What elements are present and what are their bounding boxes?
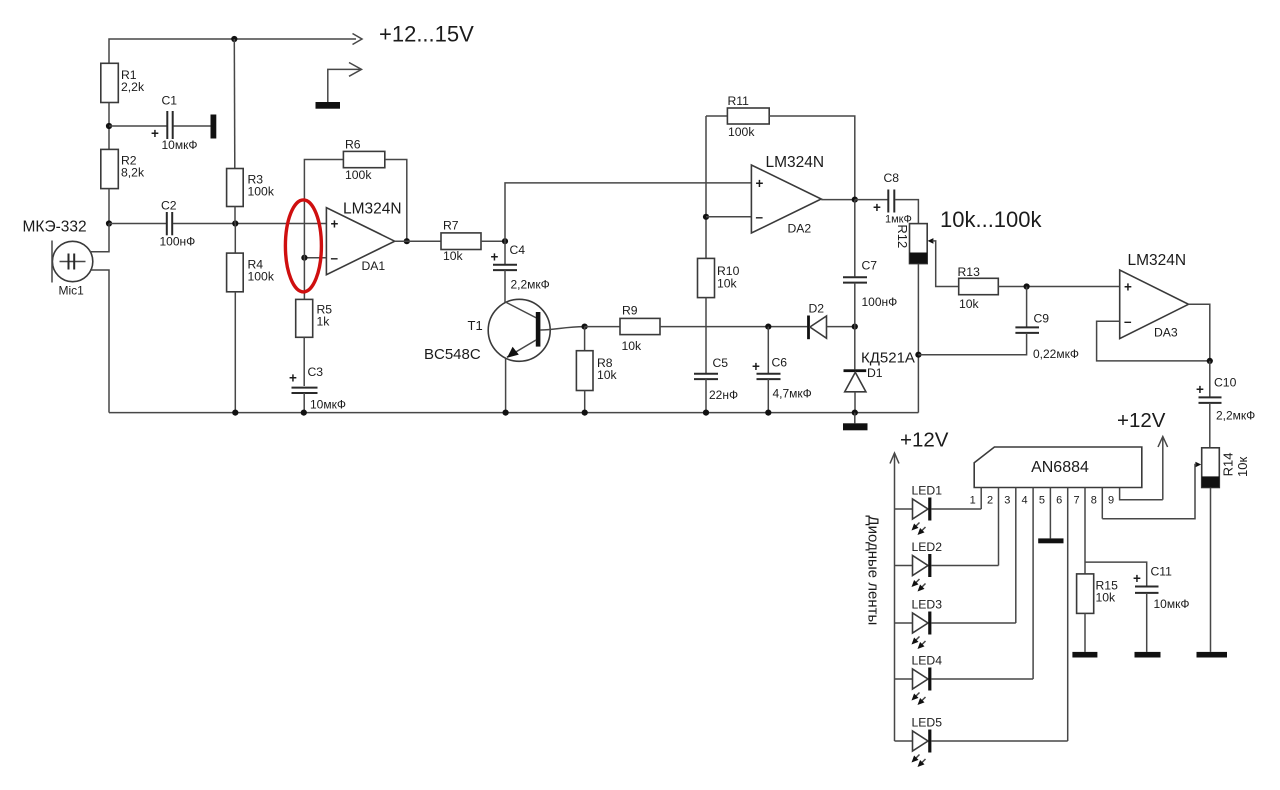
wire DA3 feedback [1097, 321, 1210, 361]
LED5 [895, 716, 1068, 768]
svg-text:100k: 100k [248, 185, 275, 199]
svg-text:+: + [1124, 280, 1132, 295]
wire R6 feedback left vertical [304, 160, 343, 300]
arrow +12V left LED rail [890, 453, 899, 741]
node R7-C4 [502, 238, 508, 244]
LED3 [895, 598, 1016, 650]
resistor R5 [296, 299, 333, 337]
node mic junction [106, 220, 112, 226]
svg-text:C7: C7 [862, 259, 878, 273]
svg-text:C6: C6 [772, 356, 788, 370]
svg-text:+: + [1133, 571, 1141, 586]
LED1 [895, 484, 982, 536]
svg-text:+: + [491, 250, 499, 265]
svg-text:КД521А: КД521А [861, 350, 915, 367]
svg-text:LED5: LED5 [912, 716, 943, 730]
svg-text:100нФ: 100нФ [862, 295, 898, 309]
node R1-R2-C1 [106, 123, 112, 129]
svg-text:C9: C9 [1034, 312, 1050, 326]
red ellipse marker [285, 200, 321, 292]
capacitor C11 [1085, 562, 1189, 652]
svg-text:–: – [756, 210, 764, 225]
svg-text:+: + [752, 359, 760, 374]
wire R6 right to DA1 output [385, 160, 407, 242]
node C9 return junction [915, 352, 921, 358]
resistor R4 [227, 224, 275, 413]
wire DA2 inverting input [706, 216, 751, 218]
op-amp DA2 [751, 154, 824, 236]
capacitor C5 [694, 356, 738, 413]
C1 terminator bar [211, 115, 217, 139]
IC U1 AN6884 [974, 447, 1142, 488]
svg-text:C2: C2 [161, 199, 177, 213]
svg-text:100k: 100k [345, 168, 372, 182]
svg-text:100k: 100k [728, 125, 755, 139]
svg-text:R11: R11 [728, 94, 750, 108]
resistor R9 [585, 304, 808, 354]
svg-text:10мкФ: 10мкФ [162, 138, 198, 152]
capacitor C8 [855, 171, 919, 226]
resistor R15 [1077, 574, 1118, 652]
svg-text:6: 6 [1056, 495, 1062, 507]
ground bar R15 [1072, 652, 1097, 658]
wire DA1 output [395, 240, 441, 242]
pin 2 [998, 488, 1000, 566]
wire C4 to T1 collector [504, 270, 506, 302]
resistor R8 [576, 327, 617, 413]
svg-text:AN6884: AN6884 [1031, 459, 1089, 476]
node D1 ground [852, 410, 858, 416]
pin 5 [1049, 488, 1051, 539]
svg-text:10k: 10k [959, 297, 980, 311]
svg-text:4: 4 [1022, 495, 1028, 507]
capacitor C7 [843, 200, 897, 327]
svg-text:+: + [289, 371, 297, 386]
wire pin9 to +12V [1120, 488, 1163, 500]
wire R7 to C4 node [481, 240, 505, 242]
svg-text:0,22мкФ: 0,22мкФ [1033, 347, 1079, 361]
svg-text:100k: 100k [248, 270, 275, 284]
wire C3 to ground rail [303, 393, 305, 413]
node R4 ground [232, 410, 238, 416]
wire mic bottom lead to ground rail [90, 270, 109, 413]
resistor R10 [698, 258, 740, 373]
node DA2 output [852, 197, 858, 203]
svg-text:10к: 10к [1235, 457, 1250, 477]
svg-text:10k: 10k [717, 277, 738, 291]
svg-text:C5: C5 [713, 356, 729, 370]
pin 3 [1015, 488, 1017, 624]
resistor R3 [227, 39, 275, 224]
op-amp DA3 [1120, 252, 1189, 340]
svg-text:+12V: +12V [900, 429, 949, 452]
diode D1 КД521А [844, 327, 915, 413]
resistor R1 [101, 63, 119, 102]
svg-text:D1: D1 [867, 366, 883, 380]
node DA3 output junction [1207, 358, 1213, 364]
svg-text:LED3: LED3 [912, 598, 943, 612]
svg-text:Диодные ленты: Диодные ленты [865, 515, 882, 625]
svg-text:C4: C4 [510, 243, 526, 257]
svg-text:2: 2 [987, 495, 993, 507]
op-amp DA1 [326, 201, 401, 275]
wire to DA2 noninverting input [505, 183, 751, 241]
ground-arrow symbol [316, 63, 362, 109]
svg-text:МКЭ-332: МКЭ-332 [23, 219, 87, 236]
svg-text:+: + [873, 200, 881, 215]
capacitor C2 [109, 199, 326, 249]
wire R14 bottom to ground [1210, 488, 1212, 652]
ground symbol below D1 [843, 413, 868, 431]
wire DA3 output [1189, 304, 1210, 361]
wire R2 to mic node [108, 189, 110, 224]
microphone Mic1 МКЭ-332 [23, 219, 93, 298]
LED4 [895, 654, 1034, 706]
svg-text:3: 3 [1004, 495, 1010, 507]
capacitor C6 [752, 327, 812, 413]
pin 8 [1101, 488, 1103, 519]
svg-text:LM324N: LM324N [1128, 252, 1187, 269]
svg-text:Mic1: Mic1 [59, 284, 85, 298]
svg-text:C11: C11 [1151, 565, 1173, 579]
svg-text:100нФ: 100нФ [160, 235, 196, 249]
svg-text:C10: C10 [1214, 376, 1237, 390]
svg-text:LED4: LED4 [912, 654, 943, 668]
svg-text:10k...100k: 10k...100k [940, 207, 1043, 232]
node C5 ground [703, 410, 709, 416]
node DA2 inverting input [703, 214, 709, 220]
svg-text:LED1: LED1 [912, 484, 943, 498]
svg-text:+12V: +12V [1117, 409, 1166, 432]
node DA1 inv input [301, 255, 307, 261]
arrow power rail [353, 34, 363, 45]
node D2-C7-D1 junction [852, 324, 858, 330]
svg-text:DA2: DA2 [788, 222, 812, 236]
wire DA2 output [821, 199, 855, 201]
node top rail junction [231, 36, 237, 42]
svg-text:C8: C8 [884, 171, 900, 185]
capacitor C4 [491, 241, 550, 291]
svg-text:7: 7 [1073, 495, 1079, 507]
node R9-D2-C6 junction [765, 324, 771, 330]
capacitor C1 [109, 94, 211, 153]
node R8 ground [582, 410, 588, 416]
svg-text:–: – [331, 251, 339, 266]
svg-text:2,2мкФ: 2,2мкФ [511, 278, 550, 292]
svg-text:+12...15V: +12...15V [379, 22, 474, 47]
pin 6 [1067, 488, 1069, 742]
resistor R6 [343, 138, 384, 183]
node signal junction R3-R4 [232, 220, 238, 226]
ground bar pin5 [1038, 538, 1063, 543]
pin 7 [1084, 488, 1086, 574]
diode D2 [807, 302, 855, 340]
svg-text:+: + [331, 217, 339, 232]
wire R12 wiper to R13 [928, 238, 959, 286]
wire R14 wiper from pin 8 [1102, 462, 1201, 519]
svg-text:R9: R9 [622, 304, 638, 318]
svg-text:BC548C: BC548C [424, 346, 481, 363]
svg-text:1: 1 [970, 495, 976, 507]
resistor R7 [441, 219, 481, 264]
svg-text:R12: R12 [895, 224, 910, 248]
wire R5 to C3 [303, 337, 305, 386]
potentiometer R14 [1202, 448, 1250, 488]
svg-text:LM324N: LM324N [766, 154, 825, 171]
svg-text:10k: 10k [622, 339, 643, 353]
node DA1 output [404, 238, 410, 244]
wire mic top lead [90, 224, 109, 252]
svg-text:10k: 10k [1096, 591, 1117, 605]
wire DA1 inverting input [304, 257, 326, 259]
svg-text:1k: 1k [317, 315, 331, 329]
svg-text:LM324N: LM324N [343, 201, 402, 218]
svg-text:D2: D2 [809, 302, 825, 316]
node C6 ground [765, 410, 771, 416]
potentiometer R12 [895, 224, 927, 264]
svg-text:10мкФ: 10мкФ [310, 398, 346, 412]
svg-text:+: + [1196, 382, 1204, 397]
svg-text:4,7мкФ: 4,7мкФ [773, 387, 812, 401]
svg-text:22нФ: 22нФ [709, 388, 738, 402]
svg-text:R14: R14 [1221, 452, 1236, 476]
wire R12 bottom vertical [917, 264, 919, 413]
svg-text:C1: C1 [162, 94, 178, 108]
svg-text:9: 9 [1108, 495, 1114, 507]
wire R11 left vertical to R10 [705, 116, 707, 258]
resistor R11 [706, 94, 855, 200]
svg-text:–: – [1124, 314, 1132, 329]
resistor R13 [958, 265, 1120, 311]
pin 4 [1032, 488, 1034, 680]
svg-text:C3: C3 [308, 365, 324, 379]
svg-text:5: 5 [1039, 495, 1045, 507]
LED2 [895, 540, 999, 592]
arrow +12V right [1158, 437, 1168, 500]
wire top power rail [109, 39, 356, 63]
svg-text:T1: T1 [468, 318, 483, 333]
svg-text:10k: 10k [443, 249, 464, 263]
wire ground rail [109, 412, 918, 414]
capacitor C3 [289, 365, 346, 412]
node C3 ground [301, 410, 307, 416]
svg-text:R7: R7 [443, 219, 459, 233]
svg-text:+: + [151, 126, 159, 141]
svg-text:+: + [756, 176, 764, 191]
node T1 base junction [582, 324, 588, 330]
ground bar C11 [1135, 652, 1161, 658]
svg-text:DA1: DA1 [362, 259, 386, 273]
transistor Q T1 BC548C [424, 299, 585, 363]
svg-text:DA3: DA3 [1154, 326, 1178, 340]
svg-text:LED2: LED2 [912, 540, 943, 554]
svg-text:8,2k: 8,2k [121, 166, 145, 180]
svg-text:10мкФ: 10мкФ [1154, 597, 1190, 611]
node R13-C9 junction [1024, 283, 1030, 289]
svg-text:10k: 10k [597, 368, 618, 382]
svg-text:8: 8 [1091, 495, 1097, 507]
svg-text:R13: R13 [958, 265, 981, 279]
pin 1 [980, 488, 982, 510]
svg-text:R6: R6 [345, 138, 361, 152]
resistor R2 [101, 149, 119, 188]
node T1 emitter ground [503, 410, 509, 416]
ground bar R14 [1197, 652, 1228, 658]
wire R1 to R2 [108, 103, 110, 150]
svg-text:2,2k: 2,2k [121, 80, 145, 94]
svg-text:2,2мкФ: 2,2мкФ [1216, 409, 1255, 423]
wire T1 emitter to ground [505, 359, 507, 413]
capacitor C9 [918, 287, 1079, 362]
capacitor C10 [1196, 361, 1255, 448]
